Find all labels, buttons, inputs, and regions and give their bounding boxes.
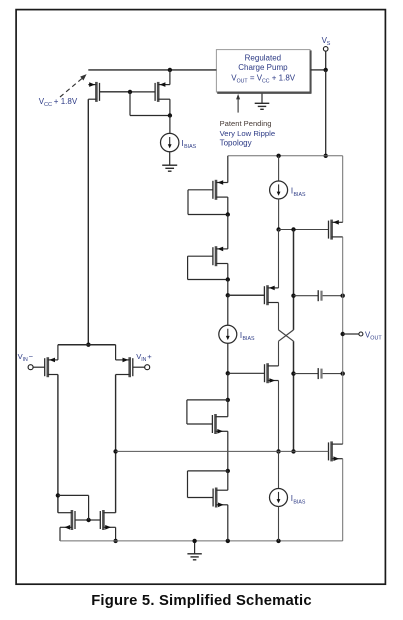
junction Q5-Q6 gate node [86, 518, 90, 522]
wire Q11 drain up [227, 400, 229, 417]
wire supply rail to I_BIAS2 [278, 156, 280, 181]
svg-text:IN: IN [141, 357, 146, 363]
junction ground tap [192, 539, 196, 543]
wire Vcc+1.8V rail [88, 69, 216, 71]
junction Q6 source on rail [113, 539, 117, 543]
current source I_BIAS2 [270, 181, 288, 199]
nmos Q11 (bias string, diode) [187, 414, 228, 434]
label V_S [322, 36, 331, 47]
wire charge pump output to V_S node [311, 69, 326, 71]
wire V_OUT [343, 333, 359, 335]
junction center column on rail [276, 539, 280, 543]
Vcc+1.8V dashed pointer arrow [60, 74, 87, 97]
junction compensation line bottom [291, 449, 295, 453]
wire Q12 drain up [227, 471, 229, 490]
svg-text:Figure 5. Simplified Schematic: Figure 5. Simplified Schematic [91, 593, 312, 609]
pmos Q2 (bias mirror right, diode) [130, 82, 170, 102]
wire bias node down to Q9 source [278, 230, 280, 288]
pmos Q13 (output upper) [329, 220, 343, 240]
wire Q7 drain down [227, 197, 229, 214]
pmos Q8 (bias string, diode) [188, 246, 228, 266]
junction Q1-Q2 gate node [128, 90, 132, 94]
wire Q8 gate loop [188, 256, 228, 279]
charge pump ground [255, 94, 270, 110]
wire nbias node down [227, 373, 229, 400]
junction tail node [86, 343, 90, 347]
wire gate node down to Q2 drain [130, 92, 170, 116]
charge pump box text [231, 54, 295, 85]
wire I_BIAS4 to nbias node [227, 343, 229, 373]
wire Q2 source up to rail [169, 70, 171, 85]
junction pbias node [226, 293, 230, 297]
nmos Q5 (input load mirror left, diode) [58, 510, 89, 530]
junction V_OUT tap [341, 332, 345, 336]
junction center column on supply rail [276, 154, 280, 158]
svg-text:S: S [327, 41, 331, 47]
label V_OUT [365, 330, 382, 341]
wire Q4 drain down [115, 375, 117, 513]
wire Q3 drain down [57, 375, 59, 513]
wire Q13 drain down output rail [342, 237, 344, 444]
label V_IN- [18, 352, 34, 363]
wire Q14 source down to rail [342, 459, 344, 541]
wire I_BIAS2 down to cascode bias node [278, 199, 280, 230]
wire nbias node to Q10 gate [228, 372, 265, 374]
wire Q7 drain to Q8 source [227, 215, 229, 249]
wire Q12 gate loop [188, 471, 228, 498]
main ground symbol [187, 541, 201, 560]
wire Q3 source corner [57, 345, 59, 360]
pmos Q9 (cascode upper) [228, 285, 279, 305]
wire Q4 source corner [115, 345, 117, 360]
terminal V_IN- [28, 365, 33, 370]
current source I_BIAS1 [161, 133, 179, 151]
junction C2 left [291, 371, 295, 375]
svg-text:Patent Pending: Patent Pending [220, 119, 272, 128]
wire Q10 source down [278, 381, 280, 452]
terminal V_S [323, 47, 328, 52]
wire supply rail corner down right [342, 156, 344, 223]
wire Q1-Q2 gate tie [100, 91, 131, 93]
capacitor C1 [294, 290, 343, 301]
junction Q2 drain node [168, 113, 172, 117]
wire V_S node down to supply rail [325, 70, 327, 156]
junction cascode bias node [276, 227, 280, 231]
pmos Q7 (bias string, diode) [188, 180, 228, 200]
junction Q7 drain node [226, 212, 230, 216]
current source I_BIAS4 [219, 325, 237, 343]
wire mirror gate tie up to Q3 drain [58, 495, 89, 520]
wire second stage node line [116, 450, 329, 452]
svg-text:+: + [147, 352, 152, 361]
svg-text:OUT: OUT [370, 336, 382, 342]
svg-text:Topology: Topology [220, 138, 252, 147]
pmos Q3 (input V_IN-) [33, 357, 58, 377]
patent pending arrow [236, 94, 240, 113]
wire Q9 drain down to crossover [278, 303, 280, 330]
pmos Q1 (bias mirror left) [88, 82, 130, 102]
wire Q8 drain down [227, 264, 229, 280]
wire crossover to Q10 drain [278, 341, 280, 366]
junction Q12 drain node [226, 469, 230, 473]
nmos Q12 (bias string, diode) [188, 488, 228, 508]
capacitor C2 [294, 368, 343, 379]
current source I_BIAS3 [270, 489, 288, 507]
wire Q6 source down to rail [115, 527, 117, 541]
label V_IN+ [136, 352, 152, 363]
label I_BIAS2 [291, 187, 306, 198]
wire supply rail corner to Q7 source [227, 156, 229, 183]
junction V_S node [324, 68, 328, 72]
junction compensation tap upper [291, 227, 295, 231]
wire compensation line upper [293, 230, 295, 330]
wire long node down to I_BIAS3 [278, 451, 280, 488]
charge pump box U1 [216, 50, 311, 94]
svg-text:Regulated: Regulated [245, 54, 281, 63]
label I_BIAS4 [240, 331, 255, 342]
junction left column on rail [226, 539, 230, 543]
terminal V_IN+ [145, 365, 150, 370]
wire Q11 source down [227, 431, 229, 471]
wire crossover X left-to-right [279, 330, 294, 341]
svg-text:+ 1.8V: + 1.8V [54, 97, 78, 106]
svg-text:BIAS: BIAS [293, 499, 305, 505]
wire V_S terminal to node [325, 51, 327, 70]
junction C1 left [291, 294, 295, 298]
junction rail / Q2 source [168, 68, 172, 72]
nmos Q10 (cascode lower) [264, 363, 278, 383]
patent pending text [220, 119, 276, 147]
wire Q11 gate loop [187, 400, 228, 424]
wire Q2 drain down [169, 99, 171, 115]
junction Q8 drain node [226, 277, 230, 281]
wire Q1 drain down to tail node [87, 99, 89, 345]
wire Q5 source to ground rail [59, 527, 61, 541]
svg-text:BIAS: BIAS [294, 192, 306, 198]
caption Figure 5. Simplified Schematic [91, 593, 312, 609]
wire pbias node to Q9 gate [228, 294, 265, 296]
label I_BIAS3 [291, 494, 306, 505]
junction Q3 drain / mirror gate [56, 493, 60, 497]
svg-text:Very Low Ripple: Very Low Ripple [220, 129, 276, 138]
junction Q4 drain / second stage [113, 449, 117, 453]
junction Q11 drain node [226, 398, 230, 402]
ground below I_BIAS1 [162, 152, 177, 171]
wire bottom ground rail [60, 540, 343, 542]
label I_BIAS1 [182, 139, 197, 150]
wire Q8 drain to pbias node [227, 280, 229, 296]
wire pbias node down to I_BIAS4 [227, 295, 229, 325]
wire Q2 drain node to I_BIAS1 [169, 116, 171, 134]
junction Q10 source / long node [276, 449, 280, 453]
junction V_S on supply rail [324, 154, 328, 158]
wire I_BIAS3 to ground rail [278, 507, 280, 541]
wire compensation line lower [293, 341, 295, 451]
nmos Q14 (output lower) [329, 441, 343, 461]
wire V_S supply rail [228, 155, 343, 157]
wire crossover X right-to-left [279, 330, 294, 341]
svg-text:−: − [29, 352, 34, 361]
wire cascode bias node to Q13 gate [279, 229, 329, 231]
svg-text:IN: IN [23, 357, 28, 363]
terminal V_OUT [359, 332, 363, 336]
svg-text:Charge Pump: Charge Pump [238, 63, 288, 72]
wire Q7 gate loop [188, 190, 228, 215]
junction C2 right [341, 371, 345, 375]
svg-text:BIAS: BIAS [243, 336, 255, 342]
svg-text:BIAS: BIAS [184, 144, 196, 150]
svg-text:CC: CC [44, 102, 52, 108]
label Vcc + 1.8V [39, 97, 78, 108]
wire input pair tail line [58, 344, 116, 346]
wire Q12 source to rail [227, 505, 229, 541]
junction C1 right [341, 294, 345, 298]
pmos Q4 (input V_IN+) [116, 357, 145, 377]
junction nbias node [226, 371, 230, 375]
nmos Q6 (input load mirror right) [89, 510, 116, 530]
